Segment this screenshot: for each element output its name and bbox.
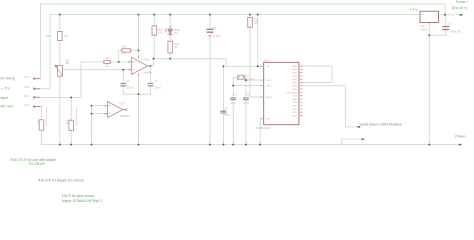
wire OSC2 row — [233, 85, 260, 87]
node output corner — [153, 58, 155, 60]
wire VSS drop — [259, 119, 261, 145]
svg-text:100uf 35v: 100uf 35v — [450, 31, 462, 34]
node IC1A in2 — [91, 113, 93, 115]
node rail2 x210 — [209, 14, 211, 16]
svg-text:100 R for gear sensor: 100 R for gear sensor — [62, 194, 96, 198]
svg-text:4.7k: 4.7k — [158, 31, 163, 34]
wire IC1A inputs ground — [91, 106, 93, 145]
resistor R12 sensor series — [58, 31, 63, 40]
IC3 right pin stubs — [299, 66, 303, 116]
NET ARROWS — [358, 14, 463, 146]
svg-text:IC2: IC2 — [421, 25, 426, 28]
svg-text:5V Unreg: 5V Unreg — [1, 77, 15, 81]
capacitor C8 electrolytic — [207, 29, 214, 32]
node gnd x260 — [259, 144, 261, 146]
pin arrow power- — [459, 144, 462, 146]
node gnd x210 — [209, 144, 211, 146]
pin arrow power+ — [460, 14, 463, 16]
wire C3 riser — [222, 66, 224, 111]
node rail2 x154 — [153, 14, 155, 16]
svg-text:Power +: Power + — [456, 0, 469, 4]
wire C1 bottom — [232, 100, 234, 145]
svg-text:LM393N: LM393N — [120, 115, 130, 118]
op-amp IC1A — [105, 102, 127, 118]
RED TEXTS — [24, 14, 462, 130]
svg-text:IC3: IC3 — [264, 59, 269, 62]
node serial gnd tip — [362, 138, 364, 140]
node gnd x233 — [232, 144, 234, 146]
pin arrow serial gnd — [361, 138, 364, 140]
wire serial ground stub — [342, 139, 363, 145]
svg-text:VSS: VSS — [266, 119, 271, 121]
wire top raw-power rail — [41, 3, 446, 5]
wire crystal left lead — [233, 77, 237, 97]
node R19 input — [70, 96, 72, 98]
wire LED chain top — [169, 15, 171, 26]
SV1 pin stubs — [34, 79, 41, 107]
resistor R9 — [104, 60, 110, 63]
node gnd x429 — [428, 144, 430, 146]
svg-text:— 5 V: — 5 V — [1, 86, 11, 90]
node IC1A in1 — [91, 105, 93, 107]
wire input to R9 — [81, 61, 104, 63]
wire C3 bottom — [222, 114, 224, 145]
svg-text:OSC2: OSC2 — [266, 86, 273, 88]
svg-text:VO: VO — [422, 14, 425, 16]
wire C8 top — [209, 15, 211, 29]
resistor R14 LED series — [168, 41, 173, 53]
op-amp IC1B — [128, 56, 150, 76]
svg-text:100 uF 25V: 100 uF 25V — [208, 35, 221, 38]
node OSC1 — [245, 79, 247, 81]
resistor R13 pullup — [152, 26, 157, 35]
capacitor C3 — [221, 111, 227, 113]
svg-text:R19 47K for Maplin SY-CR102: R19 47K for Maplin SY-CR102 — [38, 178, 84, 182]
wire pullup chain — [153, 15, 155, 26]
capacitor C4 electrolytic — [442, 27, 449, 30]
node rail2 x250 — [249, 14, 251, 16]
svg-text:7805: 7805 — [421, 28, 427, 31]
wire C7 top lead — [150, 66, 152, 83]
wire IC1B output riser — [151, 59, 154, 66]
wire R14 bottom — [169, 53, 171, 59]
wire R10 right lead — [132, 49, 139, 51]
svg-text:PIC16F628A: PIC16F628A — [256, 127, 271, 130]
wire LED to R14 — [169, 35, 171, 42]
capacitor C1 — [230, 98, 236, 100]
svg-text:Mounted on sensor: Mounted on sensor — [45, 107, 48, 126]
wire SV-3 input row — [40, 96, 81, 98]
node rail2 x138 — [138, 14, 140, 16]
wire C6 top lead — [122, 70, 124, 83]
svg-text:Power -: Power - — [455, 134, 467, 138]
wire RA loop — [303, 66, 333, 83]
node OSC2 — [232, 85, 234, 87]
node regulator input — [444, 14, 446, 16]
capacitor C6 — [120, 84, 126, 86]
node gnd x138 — [138, 144, 140, 146]
wire MCLR run — [250, 27, 260, 97]
node C3 top — [222, 65, 224, 67]
wire serial data out — [303, 86, 359, 127]
node C6 tap — [122, 69, 124, 71]
node gnd x245 — [245, 144, 247, 146]
svg-text:100 nf: 100 nf — [126, 86, 133, 89]
svg-text:100 n: 100 n — [224, 114, 231, 117]
wire pullup bottom — [153, 35, 155, 59]
svg-text:IC1B: IC1B — [143, 59, 149, 62]
wire riser rail to SV-2 — [40, 15, 50, 89]
IC2 7805 regulator box — [420, 11, 439, 22]
wire OSC1 row — [246, 79, 260, 81]
svg-text:MF LED -: MF LED - — [1, 105, 16, 109]
wire R19 drop — [70, 97, 72, 120]
wire C2 bottom — [245, 100, 247, 145]
IC3 pin names — [266, 65, 298, 121]
trimmer R11 — [55, 65, 63, 76]
wire R10 left lead drop — [119, 50, 121, 62]
wire IC1B gnd drop — [138, 74, 140, 144]
svg-text:LM393N: LM393N — [142, 71, 152, 74]
node R10 left — [118, 61, 120, 63]
wire C6 C7 ground tie — [123, 87, 150, 95]
wire SV-1 to riser — [39, 78, 41, 80]
wire regulator ground drop — [428, 23, 430, 145]
svg-text:100nf: 100nf — [155, 86, 162, 89]
IC3 PIC16F628A box — [264, 62, 299, 124]
svg-text:SV-4: SV-4 — [24, 104, 30, 107]
wire comparator output run — [154, 59, 261, 67]
wire C4 bottom to gnd line — [429, 30, 445, 35]
wire R9 to IC1B input — [110, 61, 128, 63]
wire C8 bottom — [209, 33, 211, 144]
node reg gnd C4 — [428, 34, 430, 36]
node power- tip — [460, 144, 462, 146]
wire bottom ground rail — [42, 144, 460, 146]
wire R12 to trimmer — [59, 41, 61, 66]
svg-text:VDD: VDD — [266, 66, 271, 68]
node gnd x60 — [59, 144, 61, 146]
pin arrow serial data — [358, 126, 361, 128]
svg-text:Input: Input — [1, 96, 9, 100]
wire crystal right lead — [244, 77, 246, 97]
svg-text:+ 5 V: + 5 V — [410, 8, 419, 12]
node C7 tap — [150, 65, 152, 67]
wire MCLR pullup top — [249, 15, 251, 18]
crystal Q2 — [238, 75, 245, 81]
wire IC1B V+ from rail — [138, 15, 140, 58]
svg-text:22 pf: 22 pf — [231, 102, 237, 105]
wire R16 bottom — [41, 130, 43, 144]
wire IC1A input lower — [92, 113, 105, 115]
wire regulator output to Power+ — [439, 14, 461, 16]
wire SV-4 row — [40, 107, 41, 120]
svg-text:Mspec ATS662LSH7Ryft-T: Mspec ATS662LSH7Ryft-T — [62, 199, 102, 203]
wire riser top rail to regulator node — [444, 4, 446, 15]
node gnd x91 — [91, 144, 93, 146]
wire R19 bottom — [70, 130, 72, 144]
svg-text:4.7k: 4.7k — [121, 53, 126, 56]
SV1 pin tip dots — [33, 78, 35, 108]
wire input riser — [80, 62, 82, 98]
node power+ tip — [461, 14, 463, 16]
node LED chain output — [169, 58, 171, 60]
node rail2 x60 — [59, 14, 61, 16]
svg-text:SV-3: SV-3 — [24, 95, 30, 98]
capacitor C7 — [148, 84, 154, 86]
svg-text:(6 to 25 V): (6 to 25 V) — [452, 6, 468, 10]
resistor R16 — [39, 120, 44, 130]
wire VDD riser from rail — [257, 15, 259, 67]
svg-text:R10: R10 — [122, 46, 127, 49]
svg-text:SY-CR102: SY-CR102 — [29, 162, 45, 166]
LED LED1 — [164, 25, 173, 36]
svg-text:MCLR: MCLR — [266, 97, 273, 99]
node C6C7 gnd — [138, 93, 140, 95]
capacitor C2 — [243, 98, 249, 100]
IC3 left pin stubs — [260, 66, 264, 119]
node rail2 x257 — [257, 14, 259, 16]
node VDD riser — [257, 65, 259, 67]
node gnd x71 — [70, 144, 72, 146]
resistor R10 — [121, 49, 132, 52]
wire C4 top lead — [445, 15, 447, 26]
node serial tip — [359, 126, 361, 128]
wire +5V rail — [50, 14, 420, 16]
IC2 ground stub — [428, 23, 430, 24]
svg-text:SV-1: SV-1 — [24, 76, 30, 79]
svg-text:red: red — [174, 32, 178, 35]
svg-text:TOCKI/RB4: TOCKI/RB4 — [285, 92, 297, 94]
svg-text:Serial data to DRO interface: Serial data to DRO interface — [359, 123, 402, 127]
wire riser to SV-1 pin — [40, 4, 42, 79]
node gnd x223 — [222, 144, 224, 146]
svg-text:SV-2: SV-2 — [24, 86, 30, 89]
svg-text:IC1A: IC1A — [119, 103, 125, 106]
svg-text:R16: R16 — [38, 119, 41, 124]
svg-text:4.0 mhz: 4.0 mhz — [245, 78, 255, 81]
resistor R15 MCLR pullup — [248, 17, 253, 27]
svg-text:R19: R19 — [66, 119, 69, 124]
svg-text:R12: R12 — [46, 35, 51, 38]
resistor R19 — [69, 120, 74, 130]
node R10 right — [138, 49, 140, 51]
svg-text:22 pf: 22 pf — [243, 102, 249, 105]
wire sensor chain top — [59, 15, 61, 32]
svg-text:OSC1: OSC1 — [266, 80, 273, 82]
node rail2 x170 — [169, 14, 171, 16]
wire trimmer bottom to ground — [59, 76, 61, 144]
svg-text:Mounted on sensor: Mounted on sensor — [75, 107, 78, 126]
wire trimmer wiper to IC1B input — [63, 69, 129, 71]
wire IC1A input upper — [92, 105, 105, 107]
